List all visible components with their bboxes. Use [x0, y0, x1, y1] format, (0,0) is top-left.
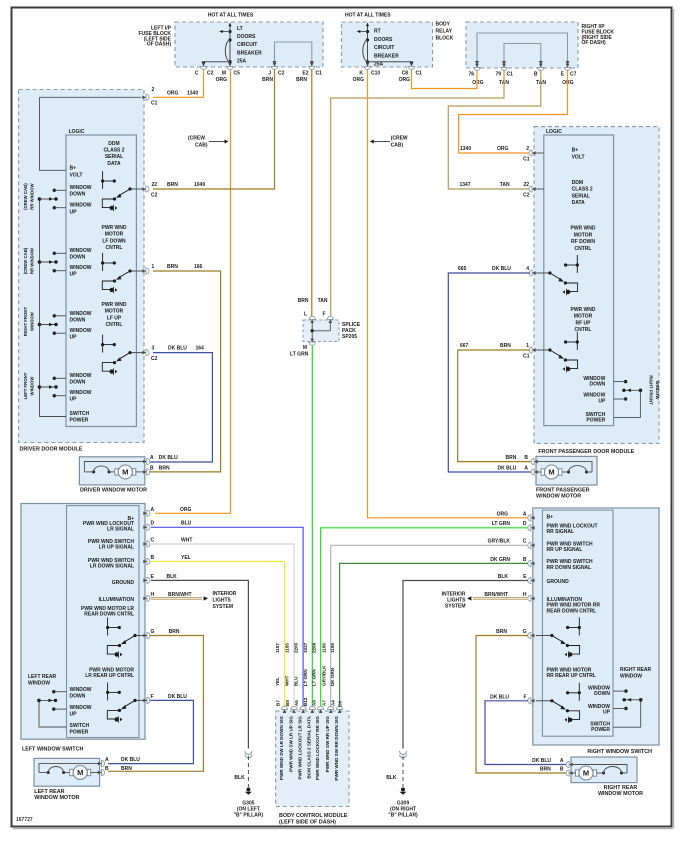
wire breaker to pin C8 [368, 61, 412, 63]
svg-text:UP: UP [598, 398, 606, 404]
svg-text:4: 4 [526, 266, 529, 272]
svg-text:B+: B+ [70, 166, 77, 172]
DDM pin 2 / C1 [142, 94, 149, 100]
svg-text:BODY: BODY [436, 22, 451, 28]
svg-text:(CREW CAB): (CREW CAB) [23, 183, 28, 210]
svg-text:LR SIGNAL: LR SIGNAL [107, 527, 134, 533]
svg-text:1: 1 [526, 343, 529, 349]
svg-text:BRN: BRN [169, 629, 180, 635]
driver motor pin A [143, 458, 150, 464]
svg-text:C2: C2 [523, 193, 530, 199]
svg-text:LR REAR UP CNTRL: LR REAR UP CNTRL [85, 673, 134, 679]
bus J to E2 inside left fuse block [275, 42, 312, 64]
wire WHT left switch C to BCM B8 [151, 544, 294, 708]
svg-text:WINDOW: WINDOW [620, 674, 642, 680]
svg-text:SWITCH: SWITCH [70, 723, 90, 729]
DDM group left front [38, 385, 42, 389]
pin E2 / C1 [309, 63, 315, 70]
svg-text:PWR WND LOCKOUT LR SIG: PWR WND LOCKOUT LR SIG [298, 716, 303, 780]
DDM group crew cab rr 1 [38, 197, 42, 201]
BCM pin A4 [337, 706, 343, 713]
svg-text:DK GRN: DK GRN [490, 557, 510, 563]
ground G309 connector and wire [400, 751, 407, 755]
BCM pin B8 [291, 706, 297, 713]
switch glyph LF up - pin 3 [102, 335, 104, 353]
wire LT GRN BCM A6 to right switch D [321, 528, 528, 708]
BCM pin B12 [309, 706, 315, 713]
RR motor pin B [566, 770, 573, 776]
svg-text:DOORS: DOORS [374, 37, 393, 43]
svg-text:CNTRL: CNTRL [106, 245, 123, 251]
svg-text:WINDOW MOTOR: WINDOW MOTOR [598, 791, 643, 797]
wire ORG RT-breaker-K down to right window switch A [368, 70, 531, 518]
svg-text:UP: UP [603, 710, 611, 716]
svg-text:WINDOW: WINDOW [30, 311, 35, 331]
svg-text:DATA: DATA [572, 200, 586, 206]
svg-text:D: D [523, 521, 527, 527]
pin E / C7 [564, 64, 570, 71]
svg-text:DK BLU: DK BLU [121, 757, 140, 763]
pin B [538, 64, 544, 71]
svg-text:WINDOW: WINDOW [70, 687, 92, 693]
svg-text:PWR WND: PWR WND [571, 226, 596, 232]
svg-text:22: 22 [523, 182, 529, 188]
svg-text:RIGHT REAR: RIGHT REAR [620, 667, 652, 673]
svg-text:A: A [523, 511, 527, 517]
driver motor internal circuit [84, 462, 144, 472]
svg-text:M: M [303, 345, 307, 351]
svg-text:GROUND: GROUND [547, 579, 570, 585]
right I/P fuse block box [466, 22, 578, 68]
DDM group crew cab rr 2 [38, 260, 42, 264]
svg-text:BLK: BLK [234, 775, 245, 781]
svg-text:RF DOWN: RF DOWN [571, 239, 595, 245]
svg-text:SYSTEM: SYSTEM [445, 604, 466, 610]
svg-text:BRN: BRN [159, 465, 170, 471]
svg-text:A4: A4 [330, 700, 335, 706]
svg-text:RIGHT FRONT: RIGHT FRONT [23, 307, 28, 337]
svg-text:C2: C2 [278, 71, 285, 77]
right window switch box [533, 508, 659, 745]
svg-text:LF DOWN: LF DOWN [102, 238, 126, 244]
svg-text:F: F [322, 312, 325, 318]
DDM internal B+ wire [40, 97, 67, 170]
svg-text:RR WINDOW: RR WINDOW [30, 183, 35, 210]
svg-text:667: 667 [460, 343, 469, 349]
svg-text:MOTOR: MOTOR [574, 314, 593, 320]
right switch glyph G [578, 618, 580, 636]
logic box (FPDM) [544, 135, 614, 426]
circuit breaker LT DOORS 25A [229, 23, 231, 67]
svg-text:DOWN: DOWN [589, 382, 605, 388]
bus 79 to B inside right fuse block [504, 44, 541, 65]
svg-text:B: B [560, 767, 564, 773]
svg-text:2: 2 [152, 87, 155, 93]
svg-text:INTERIOR: INTERIOR [213, 591, 237, 597]
svg-text:C8: C8 [402, 71, 409, 77]
logic box (DDM) [66, 135, 136, 427]
svg-text:BRN: BRN [167, 264, 178, 270]
svg-text:B+: B+ [572, 148, 579, 154]
svg-text:REAR DOWN CNTRL: REAR DOWN CNTRL [84, 612, 134, 618]
ground G305 connector and wire [245, 751, 252, 755]
wire LT GRN splice M to BCM B12 [311, 346, 313, 709]
left rear window motor box [34, 758, 100, 786]
FP pin 1 / C1 [529, 347, 536, 353]
svg-text:H: H [523, 592, 527, 598]
svg-text:PWR WND: PWR WND [102, 302, 127, 308]
svg-text:DOWN: DOWN [70, 318, 86, 324]
front passenger door module box [534, 127, 659, 444]
svg-text:FRONT PASSENGER DOOR MODULE: FRONT PASSENGER DOOR MODULE [538, 449, 634, 455]
svg-text:"B" PILLAR): "B" PILLAR) [388, 813, 418, 819]
svg-text:C1: C1 [151, 101, 158, 107]
wire BRN fuse-E2 down to splice pack L [311, 70, 313, 316]
svg-text:166: 166 [194, 264, 203, 270]
svg-text:DOWN: DOWN [70, 192, 86, 198]
wire TAN right-fuse-B to FP module pin 22 [448, 71, 541, 189]
pin 79 / C1 [501, 64, 507, 71]
wire ORG breaker-M down to left window switch A [155, 70, 230, 513]
svg-text:CIRCUIT: CIRCUIT [237, 42, 257, 48]
svg-text:2265: 2265 [294, 642, 299, 653]
splice internal wires [329, 322, 331, 331]
svg-text:C1: C1 [507, 72, 514, 78]
svg-text:WHT: WHT [285, 675, 290, 686]
svg-text:LEFT WINDOW SWITCH: LEFT WINDOW SWITCH [22, 746, 83, 752]
svg-text:2266: 2266 [311, 642, 316, 653]
svg-text:F: F [151, 694, 154, 700]
svg-text:SYSTEM: SYSTEM [213, 604, 234, 610]
svg-text:A7: A7 [322, 700, 327, 706]
svg-text:CLASS 2: CLASS 2 [103, 148, 124, 154]
svg-text:D: D [151, 521, 155, 527]
svg-text:G: G [151, 629, 155, 635]
svg-text:167727: 167727 [16, 817, 33, 823]
svg-text:ORG: ORG [472, 80, 484, 86]
bus 76 to E inside right fuse block [477, 33, 568, 64]
svg-text:B+: B+ [547, 514, 554, 520]
svg-text:LEFT FRONT: LEFT FRONT [23, 372, 28, 399]
svg-text:RR UP SIGNAL: RR UP SIGNAL [547, 547, 583, 553]
FP pin 4 [529, 270, 536, 276]
svg-text:BRN: BRN [506, 455, 517, 461]
wire breaker to pin C [204, 61, 231, 63]
splice pin L [309, 316, 315, 323]
svg-text:LR UP SIGNAL: LR UP SIGNAL [99, 545, 134, 551]
svg-text:1: 1 [152, 264, 155, 270]
svg-text:BRN: BRN [496, 629, 507, 635]
svg-text:WINDOW: WINDOW [70, 390, 92, 396]
svg-text:A: A [151, 507, 155, 513]
switch glyph serial data - pin 22 [102, 171, 104, 189]
pin J / C2 [271, 63, 277, 70]
pin C8 / C1 [408, 63, 414, 70]
svg-text:B8: B8 [285, 700, 290, 706]
right switch rear-window group [613, 700, 641, 727]
DDM window-switch trunk [40, 199, 67, 417]
wire TAN right-fuse-79 to splice pack F [331, 71, 504, 316]
svg-text:79: 79 [495, 72, 501, 78]
wire DK BLU right switch F to right rear motor A [485, 701, 568, 765]
svg-text:RELAY: RELAY [436, 29, 453, 35]
BCM pin A5 [300, 706, 306, 713]
svg-text:3: 3 [152, 346, 155, 352]
DDM pin 3 / C2 [142, 350, 149, 356]
svg-text:1187: 1187 [275, 643, 280, 653]
svg-text:BCM CLASS 2 SERIAL DATA: BCM CLASS 2 SERIAL DATA [307, 715, 312, 778]
svg-text:"B" PILLAR): "B" PILLAR) [234, 813, 264, 819]
pin M / C5 [227, 63, 233, 70]
svg-text:1185: 1185 [285, 643, 290, 653]
wire BRN DDM pin1 to driver motor B [148, 271, 221, 472]
svg-text:GROUND: GROUND [112, 580, 135, 586]
splice pin M [309, 339, 315, 346]
svg-text:C: C [195, 71, 199, 77]
splice pack SP205 box [303, 320, 339, 342]
svg-text:MOTOR: MOTOR [574, 232, 593, 238]
wire BRN fuse-J to DDM pin 22 [153, 70, 275, 189]
svg-text:A: A [524, 466, 528, 472]
svg-text:SERIAL: SERIAL [572, 193, 590, 199]
svg-text:M: M [548, 468, 554, 477]
RR motor pin A [566, 761, 573, 767]
svg-text:C1: C1 [523, 157, 530, 163]
FP pin 22 / C2 [529, 186, 536, 192]
svg-text:B: B [524, 455, 528, 461]
svg-text:C10: C10 [371, 71, 380, 77]
svg-text:C1: C1 [316, 71, 323, 77]
svg-text:25A: 25A [374, 62, 384, 68]
svg-text:BODY CONTROL MODULE: BODY CONTROL MODULE [279, 813, 348, 819]
svg-text:1340: 1340 [187, 90, 198, 96]
svg-text:WINDOW: WINDOW [70, 311, 92, 317]
svg-text:BREAKER: BREAKER [237, 50, 262, 56]
svg-text:DOWN: DOWN [70, 255, 86, 261]
svg-text:DK BLU: DK BLU [490, 694, 509, 700]
svg-text:(CREW: (CREW [188, 136, 205, 142]
pin C / C2 [200, 63, 206, 70]
svg-text:(CREW CAB): (CREW CAB) [23, 247, 28, 274]
svg-text:RT: RT [374, 29, 381, 35]
svg-text:G: G [523, 629, 527, 635]
svg-text:SP205: SP205 [342, 334, 357, 340]
wire ORG RT-breaker-C8 to right fuse 76 [412, 70, 478, 89]
svg-text:CLASS 2: CLASS 2 [572, 187, 593, 193]
wire BLU left switch D to BCM A5 [151, 527, 303, 708]
svg-text:WINDOW: WINDOW [70, 265, 92, 271]
svg-text:2: 2 [526, 146, 529, 152]
svg-text:PWR WND: PWR WND [571, 307, 596, 313]
svg-text:TAN: TAN [318, 298, 328, 304]
svg-text:DDM: DDM [108, 141, 119, 147]
svg-text:WINDOW: WINDOW [30, 376, 35, 396]
svg-text:RIGHT FRONT: RIGHT FRONT [649, 375, 654, 405]
svg-text:WINDOW: WINDOW [70, 373, 92, 379]
svg-text:POWER: POWER [70, 418, 89, 424]
svg-text:DK BLU: DK BLU [492, 266, 511, 272]
svg-text:ORG: ORG [353, 77, 365, 83]
svg-text:ORG: ORG [497, 511, 509, 517]
left switch glyph F [107, 682, 109, 700]
svg-text:DK BLU: DK BLU [168, 346, 187, 352]
svg-text:WHT: WHT [181, 538, 192, 544]
svg-text:GRY/BLK: GRY/BLK [488, 539, 511, 545]
svg-text:WINDOW: WINDOW [70, 248, 92, 254]
svg-text:SWITCH: SWITCH [70, 411, 90, 417]
svg-text:LT: LT [237, 26, 243, 32]
LR motor pin B [98, 769, 105, 775]
circuit breaker RT DOORS 25A [367, 23, 369, 67]
svg-text:(LEFT SIDE OF DASH): (LEFT SIDE OF DASH) [279, 819, 336, 825]
svg-text:ORG: ORG [497, 146, 509, 152]
svg-text:BLOCK: BLOCK [436, 36, 454, 42]
svg-text:YEL: YEL [181, 555, 191, 561]
svg-text:DOORS: DOORS [237, 34, 256, 40]
svg-text:HOT AT ALL TIMES: HOT AT ALL TIMES [208, 13, 254, 19]
svg-text:PWR WND LOCKOUT RR SIG: PWR WND LOCKOUT RR SIG [315, 716, 320, 780]
svg-text:164: 164 [196, 346, 205, 352]
svg-text:M: M [222, 71, 226, 77]
LR motor pin A [98, 761, 105, 767]
svg-text:25A: 25A [237, 58, 247, 64]
wire DK BLU FP pin4 to FP motor A [448, 273, 534, 472]
svg-text:WINDOW: WINDOW [70, 705, 92, 711]
right rear window motor box [571, 757, 637, 783]
wire BRN/WHT illumination right [473, 597, 528, 599]
svg-text:ILLUMINATION: ILLUMINATION [99, 597, 135, 603]
svg-text:BREAKER: BREAKER [374, 53, 399, 59]
svg-text:BLU: BLU [294, 676, 299, 686]
svg-text:H: H [151, 592, 155, 598]
FP trunk network [614, 390, 641, 417]
BCM pin B7 [281, 706, 287, 713]
wire ORG right-fuse-E to FP module pin 2 [459, 71, 568, 153]
svg-text:1037: 1037 [303, 642, 308, 653]
svg-text:J: J [268, 71, 271, 77]
svg-text:WINDOW: WINDOW [70, 203, 92, 209]
svg-text:C1: C1 [523, 354, 530, 360]
svg-text:VOLT: VOLT [572, 154, 585, 160]
svg-text:C2: C2 [207, 71, 214, 77]
wire DK BLU DDM pin3 to driver motor A [148, 353, 212, 462]
wire GRY/BLK BCM A7 to right switch C [331, 545, 528, 708]
svg-text:B: B [534, 72, 538, 78]
svg-text:BRN/WHT: BRN/WHT [168, 592, 192, 598]
svg-text:LT GRN: LT GRN [492, 521, 511, 527]
svg-text:MOTOR: MOTOR [105, 232, 124, 238]
svg-text:MOTOR: MOTOR [105, 309, 124, 315]
svg-text:ORG: ORG [180, 507, 192, 513]
svg-text:C7: C7 [570, 72, 577, 78]
svg-text:1186: 1186 [321, 643, 326, 653]
svg-text:DRIVER DOOR MODULE: DRIVER DOOR MODULE [20, 447, 83, 453]
svg-text:PWR WND SW LR DOWN SIG: PWR WND SW LR DOWN SIG [279, 716, 284, 780]
svg-text:PWR WND SW RR UP SIG: PWR WND SW RR UP SIG [325, 716, 330, 773]
svg-text:DOWN: DOWN [70, 694, 86, 700]
svg-text:BRN: BRN [540, 767, 551, 773]
svg-text:B: B [150, 465, 154, 471]
svg-text:665: 665 [458, 266, 467, 272]
svg-text:HOT AT ALL TIMES: HOT AT ALL TIMES [345, 13, 391, 19]
svg-text:PWR WND SW LR UP SIG: PWR WND SW LR UP SIG [288, 716, 293, 772]
svg-text:DK BLU: DK BLU [159, 455, 178, 461]
svg-text:POWER: POWER [586, 418, 605, 424]
ground G309 symbol [401, 788, 405, 792]
svg-text:F: F [523, 694, 526, 700]
svg-text:76: 76 [468, 72, 474, 78]
RR motor internal circuit [571, 765, 627, 774]
svg-text:C: C [151, 538, 155, 544]
DDM pin 1 [142, 268, 149, 274]
svg-text:VOLT: VOLT [70, 172, 83, 178]
svg-text:M: M [122, 468, 128, 477]
svg-text:BRN: BRN [167, 182, 178, 188]
driver motor pin B [143, 469, 150, 475]
svg-text:E2: E2 [302, 71, 308, 77]
left window switch box [21, 504, 145, 740]
svg-text:A: A [105, 757, 109, 763]
svg-text:YEL: YEL [275, 677, 280, 686]
svg-text:ORG: ORG [216, 77, 228, 83]
svg-text:B: B [151, 555, 155, 561]
BCM pin A6 [318, 706, 324, 713]
svg-text:ORG: ORG [399, 77, 411, 83]
svg-text:LR DOWN SIGNAL: LR DOWN SIGNAL [90, 564, 134, 570]
svg-text:C2: C2 [151, 193, 158, 199]
wire BLK left switch E to ground G305 [151, 580, 248, 748]
svg-text:DK GRN: DK GRN [330, 667, 335, 686]
svg-text:UP: UP [70, 397, 78, 403]
svg-text:C1: C1 [416, 71, 423, 77]
svg-text:CAB): CAB) [195, 143, 208, 149]
svg-text:BLU: BLU [181, 521, 192, 527]
svg-text:L: L [304, 312, 307, 318]
wire BRN left switch G to left rear motor B [108, 636, 203, 772]
wire BLK right switch E to ground G309 [403, 581, 528, 749]
svg-text:DATA: DATA [107, 161, 121, 167]
svg-text:M: M [77, 768, 83, 777]
FP pin 2 / C1 [529, 150, 536, 156]
svg-text:BLK: BLK [167, 574, 178, 580]
FP motor pin A [531, 469, 538, 475]
svg-text:A: A [560, 758, 564, 764]
left switch glyph G [107, 618, 109, 636]
svg-text:CAB): CAB) [391, 143, 404, 149]
svg-text:OF DASH): OF DASH) [147, 42, 172, 48]
right switch glyph F [578, 683, 580, 701]
svg-text:LF UP: LF UP [107, 315, 122, 321]
svg-text:C5: C5 [234, 71, 241, 77]
right switch pins [528, 515, 535, 521]
svg-text:DK BLU: DK BLU [168, 694, 187, 700]
svg-text:PWR WND SW RR DOWN SIG: PWR WND SW RR DOWN SIG [334, 716, 339, 781]
svg-text:UP: UP [70, 335, 78, 341]
wire BRN FP pin1 to FP motor B [458, 350, 534, 462]
svg-text:B: B [105, 766, 109, 772]
body control module box [276, 711, 349, 807]
svg-text:B: B [523, 557, 527, 563]
svg-text:LT GRN: LT GRN [290, 351, 309, 357]
svg-text:WINDOW: WINDOW [70, 328, 92, 334]
switch glyph LF down - pin 1 [102, 253, 104, 271]
svg-text:BRN: BRN [296, 77, 307, 83]
svg-text:WINDOW: WINDOW [655, 381, 660, 401]
FP motor internal circuit [536, 462, 592, 472]
svg-text:B7: B7 [275, 700, 280, 706]
left I/P fuse block box [175, 22, 323, 67]
svg-text:DDM: DDM [572, 180, 583, 186]
